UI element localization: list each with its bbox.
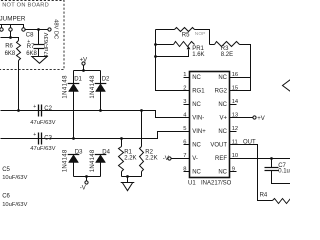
ground below R1 R2	[121, 182, 135, 184]
pin 1 stub	[184, 77, 190, 79]
svg-text:1N4148: 1N4148	[90, 149, 96, 172]
svg-text:7: 7	[183, 153, 186, 159]
svg-text:16: 16	[232, 72, 238, 78]
svg-text:V-: V-	[192, 156, 198, 162]
wire pin10 REF line	[230, 158, 291, 160]
svg-text:C8: C8	[26, 33, 34, 39]
svg-text:+: +	[33, 132, 36, 138]
potentiometer PR1	[174, 42, 195, 47]
wire D3 anode down	[73, 163, 75, 177]
svg-text:1N4148: 1N4148	[90, 75, 96, 99]
terminal -V mid	[168, 157, 171, 160]
svg-text:3: 3	[183, 99, 186, 105]
svg-text:D1: D1	[74, 77, 82, 83]
svg-text:2.2K: 2.2K	[124, 155, 136, 161]
node phantom feed junction	[9, 36, 12, 39]
svg-text:NC: NC	[218, 75, 227, 81]
jumper pin 3	[22, 28, 25, 31]
svg-text:15: 15	[232, 85, 238, 91]
svg-text:C5: C5	[2, 167, 10, 173]
pin 8 stub	[184, 171, 190, 173]
wire PR1 left lead	[156, 44, 174, 46]
svg-text:2.2K: 2.2K	[145, 155, 157, 161]
pin 9 stub	[230, 171, 237, 173]
svg-text:U1: U1	[188, 181, 196, 187]
wire C7 bottom lead to right edge	[272, 171, 291, 184]
terminal +V	[82, 62, 85, 65]
svg-text:NC: NC	[192, 75, 201, 81]
wire C8 bottom lead	[38, 49, 40, 57]
svg-text:NC: NC	[218, 102, 227, 108]
wire R2 bottom	[141, 172, 143, 177]
svg-text:12: 12	[232, 126, 238, 132]
svg-text:NC: NC	[192, 170, 201, 176]
wire R5 right lead down	[195, 30, 210, 45]
op-amp U1 INA217 body	[190, 72, 230, 178]
svg-text:VIN+: VIN+	[192, 129, 206, 135]
wire C8 top lead	[38, 30, 40, 45]
wire ground stub	[127, 177, 129, 183]
resistor R5	[175, 28, 195, 32]
svg-text:+: +	[27, 39, 30, 45]
svg-text:14: 14	[232, 99, 239, 105]
resistor R1	[119, 147, 124, 172]
wire input rail B	[1, 132, 190, 139]
svg-text:D3: D3	[75, 150, 83, 156]
svg-text:VIN-: VIN-	[192, 116, 204, 122]
node rail B / D1 junction	[72, 137, 75, 140]
resistor R6	[17, 41, 21, 61]
svg-text:R5: R5	[182, 33, 190, 39]
svg-text:NC: NC	[192, 102, 201, 108]
svg-text:NC: NC	[192, 143, 201, 149]
svg-text:+: +	[33, 104, 36, 110]
svg-text:V+: V+	[219, 116, 227, 122]
wire R1 R2 bottom join	[122, 176, 142, 178]
pin 12 stub	[230, 131, 237, 133]
wire pin13 to +V terminal	[237, 117, 254, 119]
PR1 wiper arrow	[187, 46, 191, 49]
capacitor C2	[38, 105, 40, 117]
wire C7 top lead	[271, 159, 273, 168]
node rail A / R6 junction	[17, 109, 20, 112]
svg-text:D4: D4	[102, 150, 110, 156]
svg-text:RG1: RG1	[192, 89, 205, 95]
svg-text:0.1u: 0.1u	[278, 169, 290, 175]
diode D4	[95, 154, 107, 156]
svg-text:+V: +V	[257, 116, 265, 122]
svg-text:47uF/63V: 47uF/63V	[30, 120, 55, 126]
capacitor C8	[34, 44, 45, 46]
svg-text:47uF/63V: 47uF/63V	[30, 146, 55, 152]
svg-text:C2: C2	[44, 106, 52, 112]
wire +V to D1 D2 split	[74, 66, 101, 84]
svg-text:NOP: NOP	[195, 31, 206, 37]
wire rail A to R2	[141, 111, 143, 147]
node off-page connector diamond	[283, 80, 291, 92]
svg-text:8: 8	[183, 166, 186, 172]
pin 13 stub	[230, 117, 237, 119]
wire PR1 to R3	[210, 44, 215, 46]
svg-text:R6: R6	[5, 44, 13, 50]
node rail B / R1 junction	[120, 137, 123, 140]
wire D4 anode down	[100, 163, 102, 177]
node PR1 wiper junction	[154, 55, 157, 58]
wire jumper pin3 to 48V terminal	[25, 29, 49, 31]
resistor R4	[273, 199, 293, 204]
wire D1 anode down to rail B	[73, 92, 75, 139]
wire D3 D4 bottom join	[74, 177, 101, 181]
wire pin16 to RG2 vertical	[230, 77, 251, 79]
node ground stub junction	[126, 175, 129, 178]
pin 6 stub	[184, 144, 190, 146]
svg-text:D2: D2	[102, 77, 110, 83]
wire jumper pin2 down to node	[10, 32, 12, 38]
svg-text:9: 9	[232, 166, 235, 172]
capacitor C7	[265, 167, 279, 169]
svg-text:NC: NC	[218, 170, 227, 176]
pin 16 stub	[230, 77, 237, 79]
node PR1 left junction	[154, 43, 157, 46]
wire rail B to R1	[121, 139, 123, 147]
svg-text:6K8: 6K8	[5, 51, 16, 57]
svg-text:R4: R4	[260, 192, 268, 198]
svg-text:47uF/63V: 47uF/63V	[44, 33, 50, 58]
wire input rail A	[1, 111, 190, 118]
svg-text:REF: REF	[215, 156, 227, 162]
jumper pin 1	[0, 28, 3, 31]
wire R1 bottom	[121, 172, 123, 177]
svg-text:1: 1	[183, 72, 186, 78]
node C8 top junction	[37, 28, 40, 31]
pin 14 stub	[230, 104, 237, 106]
wire R6 bottom to input rail A	[18, 61, 20, 111]
diode D3	[68, 154, 80, 156]
svg-text:48V DC: 48V DC	[53, 19, 59, 39]
svg-text:-V: -V	[80, 186, 86, 192]
node rail A / R2 junction	[140, 109, 143, 112]
wire D2 anode down to rail A	[100, 92, 102, 111]
svg-text:NC: NC	[218, 129, 227, 135]
terminal 48V DC	[48, 28, 51, 31]
svg-text:5: 5	[183, 126, 186, 132]
svg-text:C3: C3	[44, 136, 52, 142]
svg-text:8.2E: 8.2E	[221, 52, 233, 58]
svg-text:-V: -V	[163, 156, 169, 162]
svg-text:2: 2	[183, 85, 186, 91]
wire node to R6 top	[11, 38, 19, 41]
diode D1	[68, 83, 80, 85]
wire -V terminal to pin7	[172, 158, 190, 160]
node REF / C7 junction	[270, 157, 273, 160]
svg-text:R NOT ON BOARD: R NOT ON BOARD	[0, 2, 49, 8]
terminal -V bottom	[85, 181, 88, 184]
diode D2	[95, 83, 107, 85]
svg-text:10uF/63V: 10uF/63V	[2, 202, 27, 208]
wire jumper bar	[0, 25, 24, 28]
wire pin11 OUT down to R4	[230, 145, 273, 201]
resistor R3	[215, 42, 240, 47]
svg-text:1N4148: 1N4148	[63, 75, 69, 99]
dashed box: NOT ON BOARD section	[0, 1, 64, 70]
ground below C8	[31, 56, 47, 58]
svg-text:RG2: RG2	[215, 89, 228, 95]
svg-text:JUMPER: JUMPER	[0, 16, 26, 23]
svg-text:C6: C6	[2, 193, 10, 199]
terminal +V right	[253, 116, 256, 119]
node rail A / D2 junction	[99, 109, 102, 112]
wire R5 left lead	[156, 29, 175, 31]
capacitor C3	[38, 133, 40, 145]
svg-text:10uF/63V: 10uF/63V	[2, 175, 27, 181]
wire phantom line to left edge	[1, 37, 11, 39]
svg-text:1N4148: 1N4148	[63, 149, 69, 172]
svg-text:VOUT: VOUT	[210, 143, 227, 149]
wire RG1 vertical	[156, 30, 190, 91]
jumper pin 2	[9, 28, 12, 31]
svg-text:INA217/SO: INA217/SO	[201, 181, 232, 187]
node +V split junction	[82, 69, 85, 72]
svg-text:10: 10	[232, 153, 238, 159]
svg-text:6: 6	[183, 139, 186, 145]
wire R3 right to RG2 vertical	[230, 45, 251, 91]
pin 3 stub	[184, 104, 190, 106]
node -V bottom junction	[85, 175, 88, 178]
svg-text:1.6K: 1.6K	[192, 52, 204, 58]
wire PR1 wiper to RG1 vertical	[156, 50, 189, 57]
resistor R2	[140, 147, 144, 172]
